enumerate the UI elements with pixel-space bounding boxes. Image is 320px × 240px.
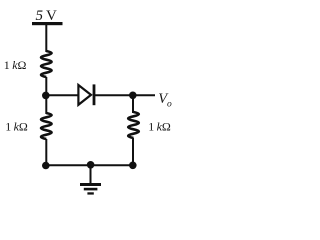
svg-text:5 V: 5 V (36, 8, 58, 24)
label 5 V (36, 8, 58, 24)
svg-text:1 kΩ: 1 kΩ (5, 120, 28, 134)
wire supply to R1 (45, 25, 47, 52)
resistor R1 (41, 51, 52, 77)
label Vo (158, 91, 172, 110)
resistor R3 (128, 112, 139, 138)
wire R3 to bottom rail (132, 138, 134, 165)
wire node A to diode anode (46, 94, 79, 96)
wire node B to R3 (132, 95, 134, 113)
bottom-right junction dot (129, 162, 137, 170)
value label R3: 1 kOhm (148, 120, 171, 134)
bottom-middle junction dot (ground node) (87, 161, 95, 169)
node B junction dot (129, 92, 137, 100)
wire ground stub (90, 165, 92, 183)
svg-text:1 kΩ: 1 kΩ (4, 58, 27, 72)
bottom-left junction dot (42, 162, 50, 170)
bottom rail wire (46, 164, 133, 166)
svg-text:1 kΩ: 1 kΩ (148, 120, 171, 134)
wire node B to output Vo (133, 94, 155, 96)
value label R1: 1 kOhm (4, 58, 27, 72)
wire R2 to bottom rail (45, 139, 47, 165)
node A junction dot (42, 92, 50, 100)
value label R2: 1 kOhm (5, 120, 28, 134)
ground symbol (80, 183, 101, 195)
resistor R2 (41, 113, 52, 139)
svg-text:o: o (167, 100, 172, 110)
wire diode cathode to node B (94, 94, 133, 96)
diode D1 (78, 84, 94, 105)
power supply bar 5V (32, 22, 63, 25)
wire node A to R2 (45, 95, 47, 114)
wire R1 to node A (45, 77, 47, 95)
